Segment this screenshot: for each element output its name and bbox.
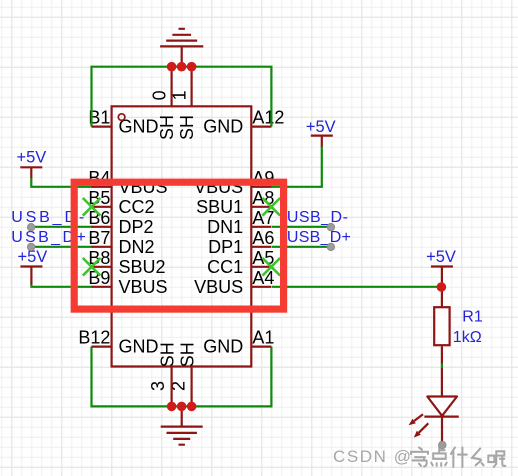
svg-text:0: 0 xyxy=(149,90,169,100)
svg-text:A1: A1 xyxy=(252,328,274,348)
svg-text:+5V: +5V xyxy=(306,118,336,136)
svg-text:SH: SH xyxy=(157,342,177,367)
svg-text:A6: A6 xyxy=(252,228,274,248)
svg-text:GND: GND xyxy=(203,117,243,137)
svg-text:USB_D+: USB_D+ xyxy=(287,229,351,246)
svg-text:3: 3 xyxy=(148,381,168,391)
svg-text:+5V: +5V xyxy=(426,248,456,266)
svg-text:B9: B9 xyxy=(88,268,110,288)
svg-text:+5V: +5V xyxy=(16,148,46,166)
svg-text:DP1: DP1 xyxy=(208,237,243,257)
svg-text:SH: SH xyxy=(177,342,197,367)
svg-text:GND: GND xyxy=(203,337,243,357)
svg-text:SBU1: SBU1 xyxy=(196,197,243,217)
svg-text:R1: R1 xyxy=(462,309,483,326)
svg-text:CSDN @: CSDN @ xyxy=(333,447,411,466)
svg-text:1kΩ: 1kΩ xyxy=(453,329,482,346)
svg-text:A7: A7 xyxy=(252,208,274,228)
svg-text:CC2: CC2 xyxy=(119,197,155,217)
svg-text:B12: B12 xyxy=(78,328,110,348)
svg-text:B6: B6 xyxy=(88,208,110,228)
svg-text:A4: A4 xyxy=(252,268,274,288)
svg-text:SBU2: SBU2 xyxy=(119,257,166,277)
svg-text:GND: GND xyxy=(119,337,159,357)
svg-text:B7: B7 xyxy=(88,228,110,248)
svg-text:VBUS: VBUS xyxy=(119,277,168,297)
svg-text:VBUS: VBUS xyxy=(194,277,243,297)
svg-text:CC1: CC1 xyxy=(207,257,243,277)
svg-text:DP2: DP2 xyxy=(119,217,154,237)
svg-text:SH: SH xyxy=(157,115,177,140)
svg-text:A12: A12 xyxy=(252,108,284,128)
svg-text:SH: SH xyxy=(177,115,197,140)
svg-text:USB_D-: USB_D- xyxy=(287,209,348,226)
svg-text:DN1: DN1 xyxy=(207,217,243,237)
svg-text:DN2: DN2 xyxy=(119,237,155,257)
